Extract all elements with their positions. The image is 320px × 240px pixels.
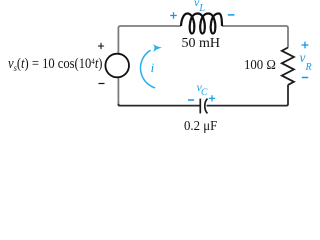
minus sign of resistor (blue) — [302, 77, 308, 79]
source Vs (ac voltage source circle) — [105, 54, 129, 78]
capacitor C1 right curved plate — [205, 99, 208, 114]
current arrowhead — [153, 43, 163, 52]
plus sign of inductor (blue) — [170, 12, 177, 19]
wire top (left segment, node from source to inductor) — [118, 26, 181, 55]
label inductor voltage vL — [194, 0, 205, 14]
resistor R1 zigzag 100 ohm — [282, 48, 294, 85]
label current i — [151, 61, 155, 76]
wire bottom right segment (capacitor to resistor) — [207, 85, 288, 106]
capacitor C1 left plate — [199, 99, 201, 114]
plus sign of resistor (blue) — [302, 42, 309, 49]
label capacitor value 0.2 uF — [184, 119, 217, 135]
wire bottom left segment (to capacitor) — [118, 104, 200, 106]
plus sign of source — [98, 43, 104, 49]
current arrow i (blue arc) — [140, 50, 155, 88]
inductor L1 coil 50 mH — [181, 14, 222, 34]
label resistor value 100 ohm — [244, 58, 276, 74]
minus sign of source — [99, 83, 105, 85]
minus sign of inductor (blue) — [228, 14, 235, 16]
label resistor voltage vR — [300, 50, 312, 73]
plus sign of capacitor (blue) — [209, 95, 215, 101]
minus sign of capacitor (blue) — [188, 99, 194, 101]
wire top (right segment, inductor to resistor) — [222, 26, 288, 48]
label inductor value 50 mH — [182, 36, 221, 52]
wire left lower (source to bottom rail) — [117, 77, 119, 106]
label source equation vs(t)=10cos(10^4 t) — [8, 56, 103, 75]
label capacitor voltage vC — [197, 81, 208, 99]
